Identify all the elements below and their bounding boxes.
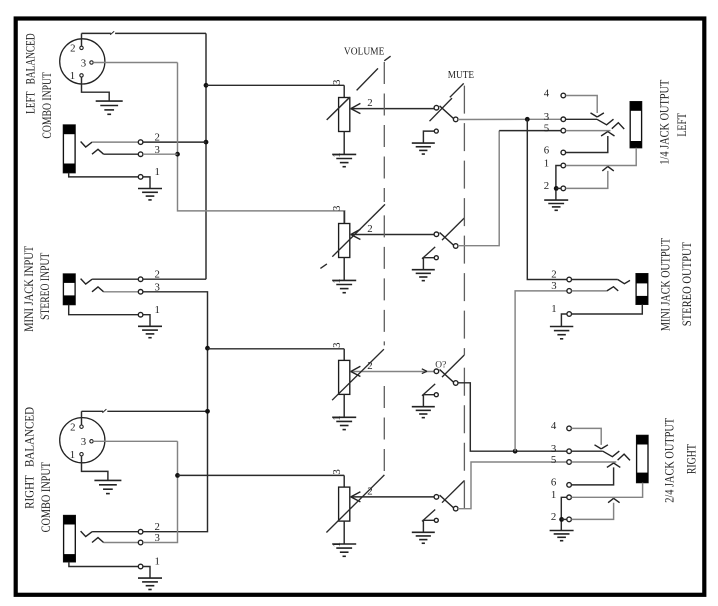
svg-text:MINI JACK INPUT: MINI JACK INPUT xyxy=(21,246,36,332)
svg-text:1: 1 xyxy=(154,304,159,316)
svg-text:3: 3 xyxy=(81,57,86,69)
svg-text:VOLUME: VOLUME xyxy=(344,45,385,57)
svg-text:COMBO INPUT: COMBO INPUT xyxy=(38,462,53,533)
svg-text:COMBO INPUT: COMBO INPUT xyxy=(39,72,54,139)
svg-text:RIGHT BALANCED: RIGHT BALANCED xyxy=(22,407,37,509)
svg-text:3: 3 xyxy=(544,111,549,123)
svg-text:4: 4 xyxy=(551,420,557,432)
svg-text:1: 1 xyxy=(551,489,556,501)
svg-text:3: 3 xyxy=(331,206,343,211)
svg-text:6: 6 xyxy=(544,144,550,156)
svg-text:3: 3 xyxy=(331,469,343,474)
svg-text:MUTE: MUTE xyxy=(448,69,475,81)
svg-text:3: 3 xyxy=(81,436,86,448)
svg-text:2: 2 xyxy=(70,422,75,434)
svg-text:2: 2 xyxy=(551,269,556,281)
svg-text:2: 2 xyxy=(551,511,556,523)
svg-text:1: 1 xyxy=(154,166,159,178)
svg-text:LEFT BALANCED: LEFT BALANCED xyxy=(23,33,38,114)
svg-text:2: 2 xyxy=(367,223,372,235)
svg-text:1: 1 xyxy=(544,157,549,169)
svg-text:3: 3 xyxy=(331,342,343,347)
svg-text:1: 1 xyxy=(70,70,75,82)
svg-text:2/4 JACK OUTPUT: 2/4 JACK OUTPUT xyxy=(662,418,677,503)
svg-text:1/4 JACK OUTPUT: 1/4 JACK OUTPUT xyxy=(656,80,671,165)
svg-text:3: 3 xyxy=(551,280,556,292)
svg-text:O?: O? xyxy=(435,359,446,369)
svg-text:2: 2 xyxy=(70,43,75,55)
svg-text:5: 5 xyxy=(544,122,549,134)
svg-text:5: 5 xyxy=(551,454,556,466)
svg-text:RIGHT: RIGHT xyxy=(684,444,699,474)
svg-text:1: 1 xyxy=(70,449,75,461)
svg-text:MINI JACK OUTPUT: MINI JACK OUTPUT xyxy=(658,238,673,331)
svg-text:4: 4 xyxy=(544,87,550,99)
svg-text:2: 2 xyxy=(367,97,372,109)
svg-text:LEFT: LEFT xyxy=(674,113,689,137)
svg-text:STEREO INPUT: STEREO INPUT xyxy=(37,253,52,320)
svg-text:2: 2 xyxy=(544,180,549,192)
svg-text:STEREO OUTPUT: STEREO OUTPUT xyxy=(679,242,694,326)
svg-text:1: 1 xyxy=(154,556,159,568)
svg-text:6: 6 xyxy=(551,477,557,489)
svg-text:1: 1 xyxy=(551,303,556,315)
svg-text:3: 3 xyxy=(331,80,343,85)
